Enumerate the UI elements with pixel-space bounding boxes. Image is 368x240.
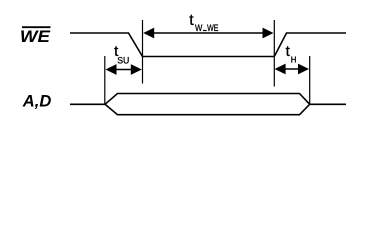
dimension arrowhead t_W_WE right: [263, 28, 274, 39]
svg-text:WE: WE: [20, 27, 51, 46]
wire A,D bus lead-in: [70, 103, 105, 105]
extension line at WE falling edge: [142, 20, 144, 84]
wire A,D bus valid-data hexagon: [105, 94, 310, 115]
signal label WE overline: [22, 26, 51, 28]
svg-text:A,D: A,D: [22, 93, 52, 111]
svg-text:WE: WE: [207, 23, 218, 33]
svg-text:H: H: [291, 56, 297, 65]
extension line at A,D left transition (t_su start): [104, 56, 106, 104]
dimension arrowhead t_su right: [131, 64, 142, 75]
extension line at WE rising edge: [273, 20, 275, 87]
svg-text:t: t: [189, 12, 194, 29]
dimension arrow t_W_WE shaft: [148, 32, 269, 34]
dimension arrowhead t_su left: [106, 64, 117, 75]
dimension arrow t_H shaft: [278, 68, 306, 70]
extension line at A,D right transition (t_H end): [309, 56, 311, 104]
svg-text:SU: SU: [117, 55, 129, 66]
dimension arrowhead t_H right: [298, 64, 309, 75]
wire WE waveform (high, falling edge, low, rising edge, high): [70, 33, 346, 57]
dimension arrowhead t_H left: [275, 64, 286, 75]
wire A,D bus tail: [310, 103, 346, 105]
dimension arrow t_su shaft: [109, 69, 139, 71]
dimension arrowhead t_W_WE left: [143, 28, 154, 39]
svg-text:W: W: [195, 23, 203, 33]
